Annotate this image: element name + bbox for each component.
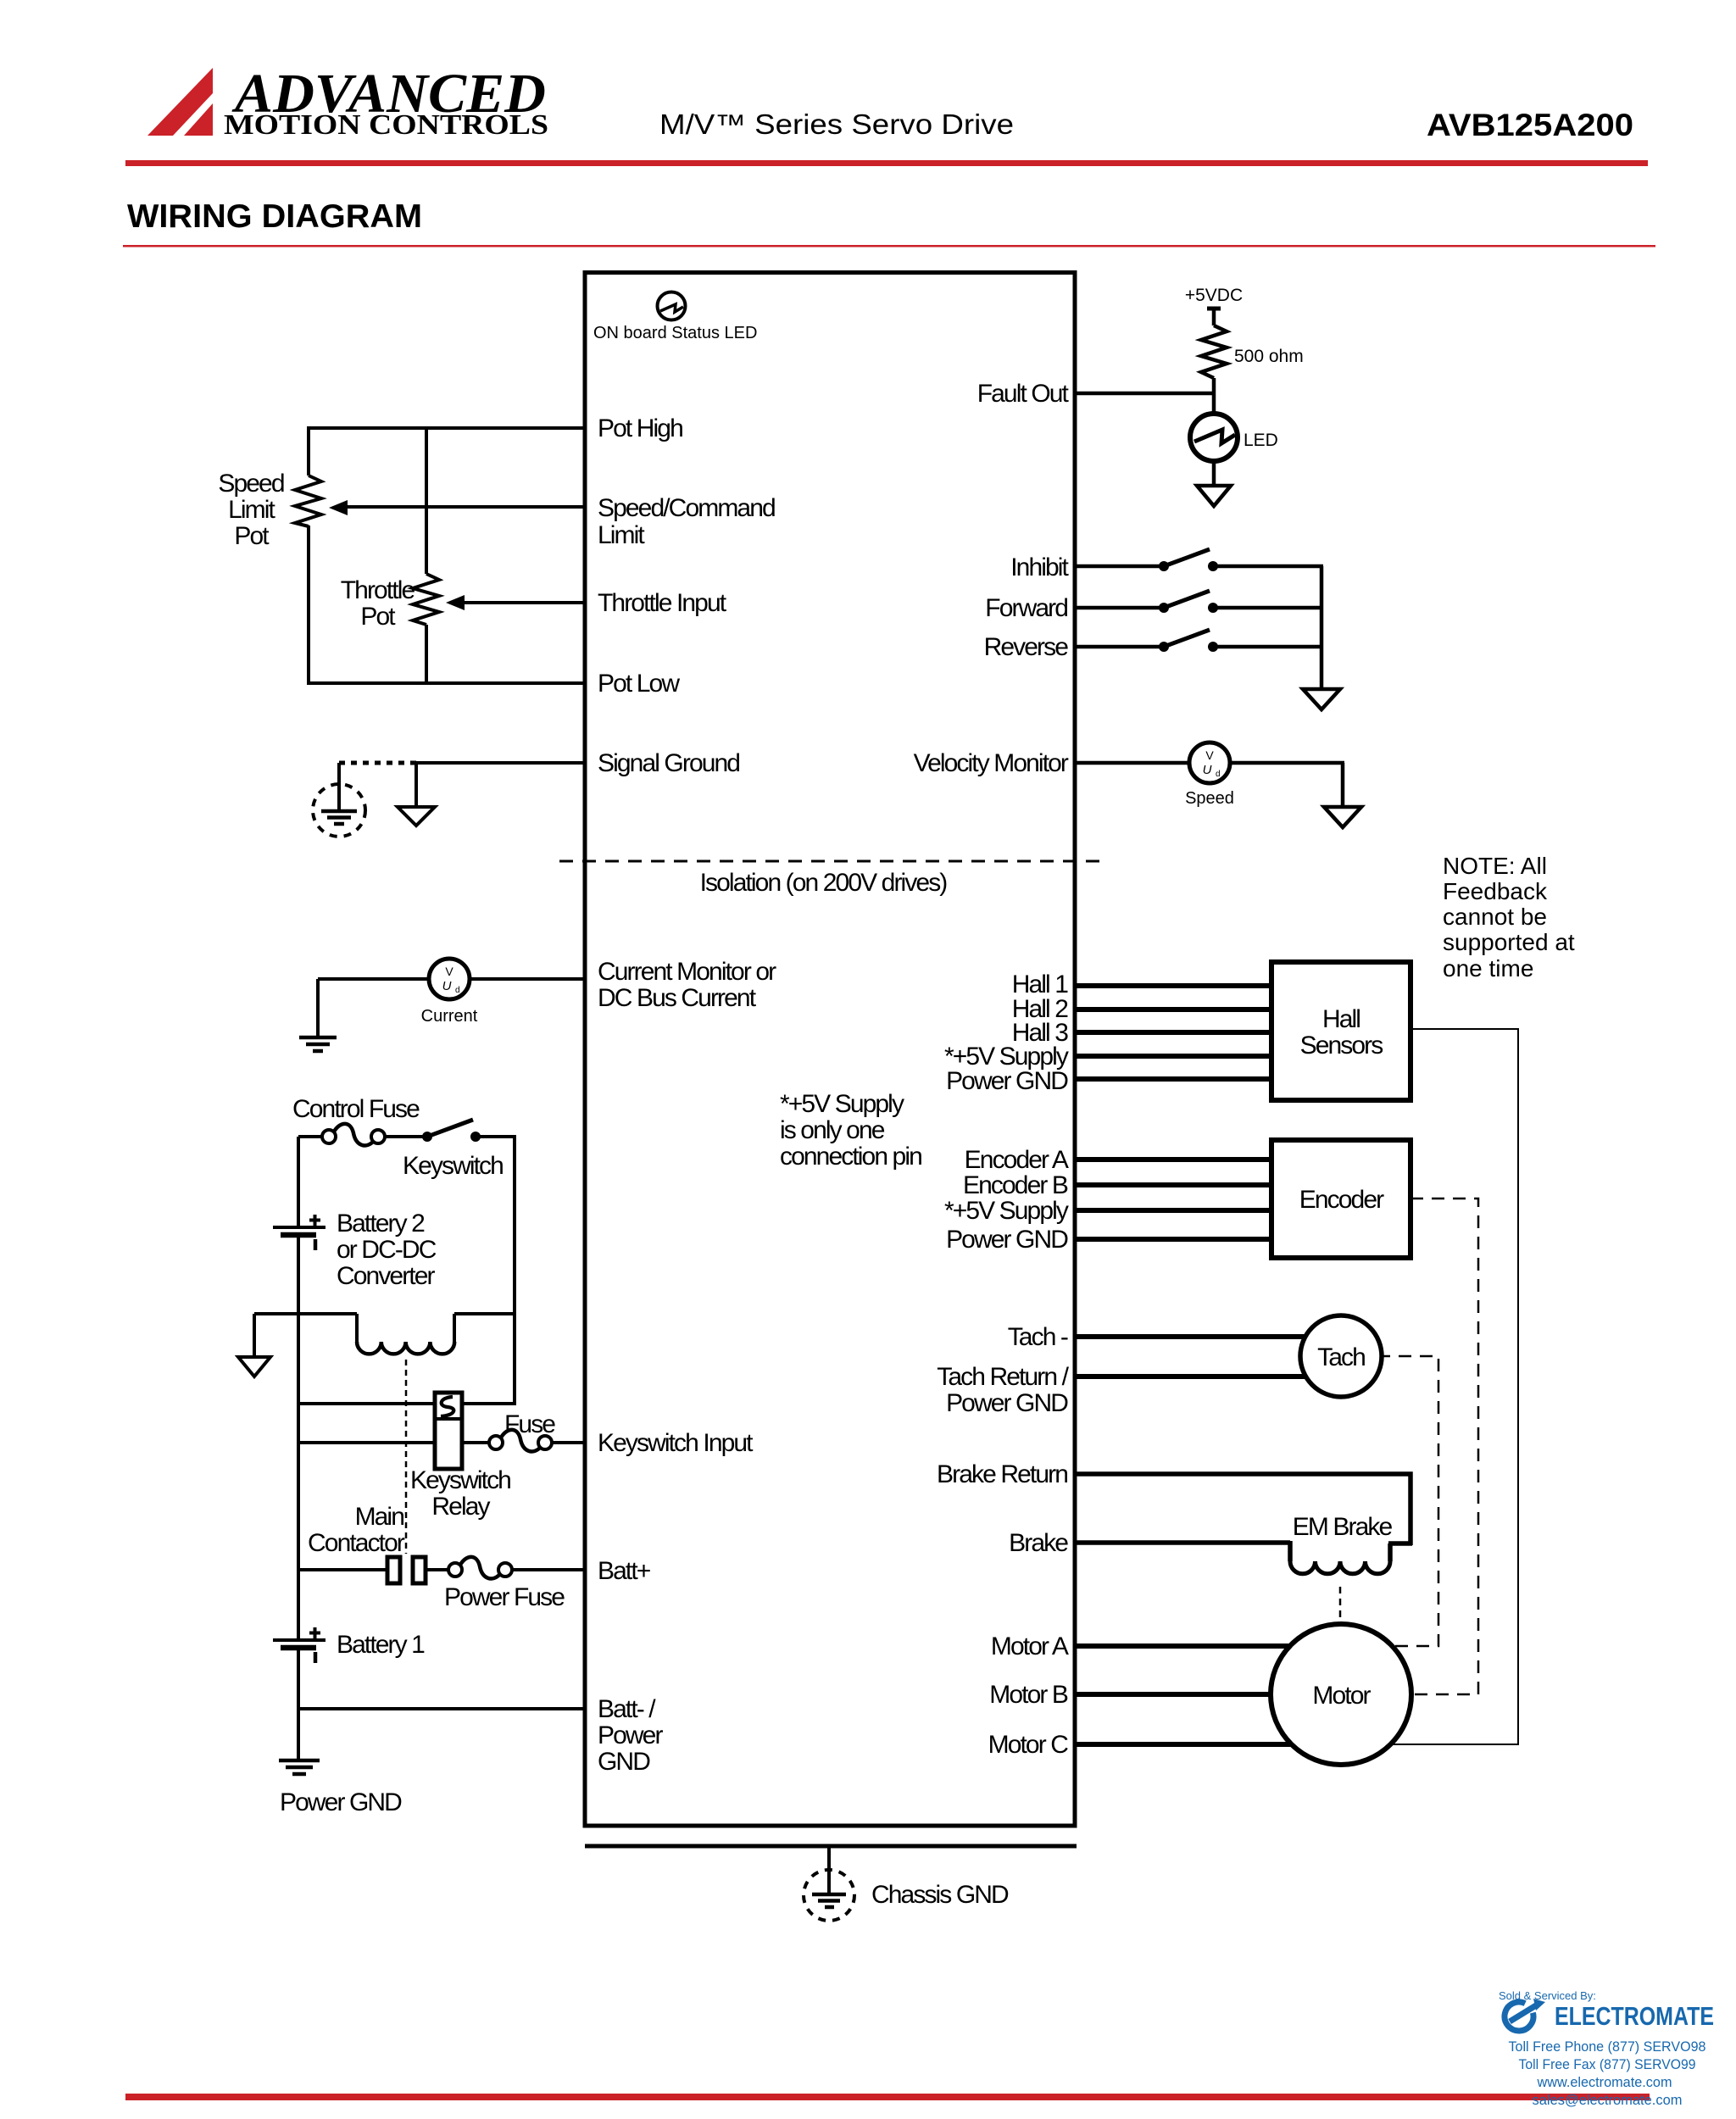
wire keyswitch to right vertical [476,1135,516,1138]
wire motor a [1075,1643,1341,1649]
potentiometer throttle pot zigzag [413,574,439,625]
svg-text:Limit: Limit [228,496,275,524]
resistor 500 ohm zigzag [1201,325,1227,378]
wire fuse to keyswitch [385,1135,427,1138]
switch forward [1159,591,1218,613]
svg-text:one time: one time [1443,955,1533,982]
em brake coil [1290,1541,1412,1574]
svg-text:U: U [442,979,452,993]
svg-text:Keyswitch: Keyswitch [410,1466,510,1494]
control fuse symbol [322,1124,385,1146]
wire battery2 loop bottom right [462,1402,516,1405]
wire motor c [1075,1742,1341,1747]
wire tach minus [1075,1334,1331,1339]
wire brake return [1075,1474,1410,1545]
wire forward to bus [1213,606,1323,610]
wire fuse to box [552,1441,585,1444]
svg-text:+5VDC: +5VDC [1185,286,1243,305]
wire hall power gnd [1075,1076,1274,1082]
svg-text:Tach: Tach [1317,1343,1365,1371]
wire fault out [1075,392,1216,396]
svg-text:Fault Out: Fault Out [977,380,1070,408]
svg-text:Current: Current [421,1007,478,1026]
svg-text:Feedback: Feedback [1443,878,1548,904]
wire throttle wiper with arrow [464,601,585,604]
wire encoder +5v supply [1075,1208,1274,1213]
svg-text:Motor B: Motor B [989,1681,1068,1709]
wire speed/command wiper with arrow [346,505,585,509]
svg-text:is only one: is only one [780,1116,885,1144]
svg-text:*+5V Supply: *+5V Supply [944,1197,1069,1225]
hall sensors box [1271,962,1410,1100]
wire batt- / power gnd [298,1707,585,1710]
svg-text:Control Fuse: Control Fuse [292,1095,420,1123]
svg-text:M/V™ Series Servo Drive: M/V™ Series Servo Drive [659,108,1014,140]
wire tach return [1075,1374,1331,1379]
svg-text:Current Monitor or: Current Monitor or [598,958,776,986]
svg-text:Batt- /: Batt- / [598,1695,656,1723]
svg-text:Speed: Speed [218,470,283,498]
wire hall 1 [1075,983,1274,988]
svg-text:MOTION CONTROLS: MOTION CONTROLS [224,109,548,141]
chassis gnd stub [827,1846,831,1894]
svg-text:V: V [445,965,453,978]
svg-text:DC Bus Current: DC Bus Current [598,984,757,1012]
fuse on keyswitch input [489,1430,552,1452]
wire LED to arrow ground [1212,461,1216,486]
wire motor b [1075,1692,1341,1697]
wire hall 2 [1075,1007,1274,1012]
wire right vertical of keyswitch loop [513,1137,516,1405]
svg-text:Battery 1: Battery 1 [337,1631,425,1659]
arrow ground switch bus [1303,689,1340,709]
svg-text:Keyswitch: Keyswitch [403,1152,503,1180]
svg-text:Keyswitch Input: Keyswitch Input [598,1429,754,1457]
wire reverse [1075,645,1164,649]
chassis bar under box [585,1844,1077,1849]
svg-text:Pot: Pot [234,522,270,550]
svg-text:Pot High: Pot High [598,414,682,442]
svg-text:Toll Free Phone (877) SERVO98: Toll Free Phone (877) SERVO98 [1509,2038,1706,2055]
svg-text:500 ohm: 500 ohm [1234,347,1304,366]
wire relay coil line right [454,1312,515,1315]
wire left vertical battery rail middle [297,1235,300,1640]
wire pot loop middle vertical (lower) [425,625,428,685]
svg-text:Inhibit: Inhibit [1010,553,1069,581]
svg-text:www.electromate.com: www.electromate.com [1537,2074,1672,2090]
wire inhibit to bus [1213,565,1323,569]
wire resistor to LED [1212,378,1216,415]
wire contactor to power fuse [426,1568,448,1571]
svg-text:ON board Status LED: ON board Status LED [593,324,757,342]
wire pot loop middle vertical (upper) [425,426,428,574]
battery 2 symbol [273,1215,325,1250]
wire signal ground [416,761,585,765]
svg-text:V: V [1205,748,1214,762]
svg-text:EM Brake: EM Brake [1293,1513,1393,1541]
dashed link em brake to motor [1339,1587,1342,1622]
svg-text:Power GND: Power GND [946,1226,1068,1254]
+5VDC supply bar [1207,309,1221,325]
svg-text:Fuse: Fuse [504,1410,555,1438]
AMC logo red triangle sliver [184,103,213,136]
wire forward [1075,606,1164,610]
svg-text:d: d [455,986,460,995]
svg-text:Velocity Monitor: Velocity Monitor [914,749,1069,777]
arrow ground below LED [1197,486,1231,506]
svg-text:Power GND: Power GND [280,1788,402,1816]
switch reverse [1159,630,1218,652]
svg-text:Speed: Speed [1185,789,1234,808]
on-board status LED symbol [658,292,686,320]
svg-text:d: d [1216,770,1221,779]
wire batt+ left [298,1568,387,1571]
isolation dashed line [559,860,1101,863]
svg-text:Motor C: Motor C [988,1731,1069,1759]
earth ground symbol in dashed circle [313,784,365,837]
arrow ground velocity monitor [1324,807,1361,827]
wire encoder a [1075,1157,1274,1162]
svg-text:sales@electromate.com: sales@electromate.com [1533,2092,1683,2108]
power fuse symbol [448,1557,512,1579]
servo drive box outline [585,273,1075,1827]
svg-text:Power Fuse: Power Fuse [444,1583,565,1611]
tach circle [1300,1315,1382,1397]
svg-text:Pot Low: Pot Low [598,670,680,698]
wire battery2 loop bottom left [298,1402,435,1405]
ground stub current monitor [316,979,320,1037]
wire signal ground dotted segment [339,761,416,765]
wire power fuse to box [512,1568,585,1571]
svg-text:Motor: Motor [1312,1682,1371,1710]
earth ground stub [337,763,341,811]
battery 1 symbol [273,1627,325,1663]
electromate block [1499,1989,1714,2108]
keyswitch switch symbol [422,1120,481,1142]
ground symbol current monitor [299,1037,337,1051]
LED symbol circle [1190,414,1238,461]
svg-text:Battery 2: Battery 2 [337,1210,425,1237]
switch inhibit [1159,549,1218,571]
svg-text:Encoder: Encoder [1299,1186,1384,1214]
svg-text:cannot be: cannot be [1443,904,1547,930]
svg-text:Encoder A: Encoder A [965,1146,1069,1174]
svg-text:LED: LED [1244,431,1278,450]
wire encoder power gnd [1075,1237,1274,1242]
svg-text:Hall: Hall [1322,1005,1360,1033]
wire inhibit [1075,565,1164,569]
svg-text:*+5V Supply: *+5V Supply [780,1090,904,1118]
wire relay coil line left [254,1312,357,1315]
svg-text:supported at: supported at [1443,929,1575,955]
svg-text:Relay: Relay [431,1493,490,1521]
wire Pot Low [307,681,585,685]
svg-text:NOTE: All: NOTE: All [1443,853,1547,879]
svg-text:or DC-DC: or DC-DC [337,1236,437,1264]
wire left vertical battery rail lower [297,1648,300,1760]
relay coil symbol [357,1314,454,1354]
wire hall 3 [1075,1030,1274,1035]
meter circle Current [421,959,478,1026]
AMC logo red triangle large [147,68,213,136]
svg-text:Power GND: Power GND [946,1389,1068,1417]
svg-text:Limit: Limit [598,521,645,549]
footer red rule [125,2094,1650,2100]
wire velocity monitor right [1228,761,1344,765]
svg-text:Contactor: Contactor [308,1529,405,1557]
wire left vertical battery rail upper [297,1137,300,1227]
wire relay to fuse [462,1441,489,1444]
tach feedback dashed line [1356,1356,1438,1646]
svg-text:Converter: Converter [337,1262,436,1290]
svg-text:Reverse: Reverse [984,633,1069,661]
heading thin red rule [123,245,1655,247]
wire encoder b [1075,1182,1274,1187]
svg-text:Throttle Input: Throttle Input [598,589,727,617]
svg-text:AVB125A200: AVB125A200 [1427,108,1633,142]
arrow ground symbol [398,807,435,826]
wire velocity monitor down [1341,763,1345,807]
chassis gnd earth symbol in dashed circle [804,1870,854,1921]
svg-text:WIRING DIAGRAM: WIRING DIAGRAM [127,198,422,235]
svg-text:Motor A: Motor A [991,1632,1069,1660]
svg-text:Toll Free Fax (877) SERVO99: Toll Free Fax (877) SERVO99 [1519,2056,1696,2072]
svg-text:Tach -: Tach - [1008,1323,1068,1351]
wire hall +5v supply [1075,1054,1274,1059]
wire Pot High [309,426,585,430]
svg-text:Brake: Brake [1009,1529,1068,1557]
wire velocity monitor left [1075,761,1191,765]
svg-text:U: U [1203,763,1212,777]
arrow ground left of coil [238,1314,270,1377]
svg-text:Power: Power [598,1721,663,1749]
svg-text:Forward: Forward [985,594,1067,622]
header red rule [125,160,1648,166]
svg-text:connection pin: connection pin [780,1143,921,1171]
svg-text:Speed/Command: Speed/Command [598,494,775,522]
wire current monitor right [468,977,585,981]
electromate icon [1505,2002,1533,2031]
wire stub to arrow ground [415,763,418,807]
wire pot loop left vertical (lower) [307,526,310,685]
wire reverse to bus [1213,645,1323,649]
svg-text:Throttle: Throttle [341,576,415,604]
svg-text:Sensors: Sensors [1300,1032,1383,1059]
main contactor bars [387,1557,426,1583]
wire brake [1075,1540,1290,1545]
encoder feedback dashed line [1356,1199,1478,1694]
svg-text:Isolation (on 200V drives): Isolation (on 200V drives) [700,869,948,897]
svg-text:Power GND: Power GND [946,1067,1068,1095]
wire switch bus vertical [1320,566,1324,689]
keyswitch relay box [435,1393,462,1469]
wire keyswitch top left segment [298,1135,322,1138]
wire keyswitch input left [298,1441,435,1444]
svg-text:Batt+: Batt+ [598,1557,651,1585]
dashed mechanical link keyswitch relay to contactor [405,1360,408,1554]
hall feedback thin line [1365,1029,1518,1744]
svg-text:Pot: Pot [360,603,396,631]
svg-text:Chassis GND: Chassis GND [871,1881,1009,1909]
svg-text:Main: Main [355,1503,404,1531]
wire pot loop left vertical (upper) [307,426,310,476]
encoder box [1271,1140,1410,1258]
svg-text:GND: GND [598,1748,650,1776]
ground symbol power gnd [279,1760,320,1774]
motor circle [1271,1624,1411,1765]
svg-text:ELECTROMATE: ELECTROMATE [1555,2001,1714,2031]
meter circle Speed [1185,742,1234,808]
svg-text:Encoder B: Encoder B [963,1171,1068,1199]
potentiometer speed limit pot zigzag [295,476,321,526]
wire current monitor left [318,977,431,981]
svg-text:Brake Return: Brake Return [937,1460,1067,1488]
svg-text:Tach Return /: Tach Return / [937,1363,1069,1391]
svg-text:Signal Ground: Signal Ground [598,749,739,777]
